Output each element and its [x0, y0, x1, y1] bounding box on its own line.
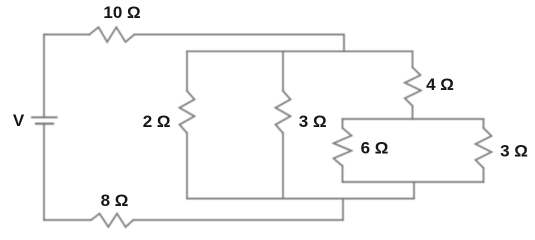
- wire: 6 ohm bottom stub: [342, 166, 344, 182]
- wire: top rail right of 10 ohm, drop to upper node rail: [134, 35, 344, 52]
- resistor 3 ohm (right branch): [476, 128, 492, 168]
- wire: battery top lead, left vertical up: [43, 35, 45, 118]
- voltage source V (battery): [32, 117, 57, 123]
- resistor 10 ohm: [89, 27, 134, 42]
- wire: upper node rail (node between 10 ohm and parallel branches): [187, 50, 413, 52]
- resistor 8 ohm: [91, 214, 133, 227]
- wire: 2 ohm branch top lead: [186, 51, 188, 91]
- svg-text:V: V: [13, 111, 25, 130]
- svg-text:3 Ω: 3 Ω: [500, 142, 528, 161]
- resistor 2 ohm: [180, 91, 195, 133]
- svg-text:4 Ω: 4 Ω: [426, 75, 454, 94]
- wire: connector from parallel box down to lower node rail: [413, 182, 415, 199]
- svg-text:8 Ω: 8 Ω: [101, 191, 129, 210]
- wire: 3 ohm (right) bottom stub: [483, 168, 485, 182]
- svg-text:3 Ω: 3 Ω: [299, 112, 327, 131]
- wire: bottom edge of 6/3 ohm parallel box: [343, 181, 484, 183]
- resistor 6 ohm: [334, 128, 352, 166]
- wire: drop from lower rail to bottom return wire: [342, 199, 344, 220]
- wire: 2 ohm branch bottom lead: [186, 133, 188, 199]
- wire: battery bottom lead, left vertical down: [43, 124, 45, 220]
- resistor 4 ohm: [405, 67, 421, 106]
- svg-text:10 Ω: 10 Ω: [103, 3, 140, 22]
- wire: 3 ohm (right) top stub: [483, 119, 485, 128]
- wire: 4 ohm branch top lead: [412, 51, 414, 67]
- svg-text:2 Ω: 2 Ω: [143, 112, 171, 131]
- wire: 3 ohm branch bottom lead: [282, 133, 284, 199]
- wire: bottom return left of 8 ohm: [44, 219, 91, 221]
- wire: top edge of 6/3 ohm parallel box: [343, 118, 484, 120]
- resistor 3 ohm (middle branch): [276, 91, 291, 133]
- wire: bottom return right of 8 ohm: [133, 219, 343, 221]
- wire: top rail left of 10 ohm: [44, 34, 89, 36]
- wire: 6 ohm top stub: [342, 119, 344, 128]
- wire: 4 ohm branch bottom lead: [412, 106, 414, 119]
- wire: 3 ohm branch top lead: [282, 51, 284, 91]
- svg-text:6 Ω: 6 Ω: [361, 139, 389, 158]
- wire: lower node rail (bottom of 2/3 ohm branches): [187, 198, 414, 200]
